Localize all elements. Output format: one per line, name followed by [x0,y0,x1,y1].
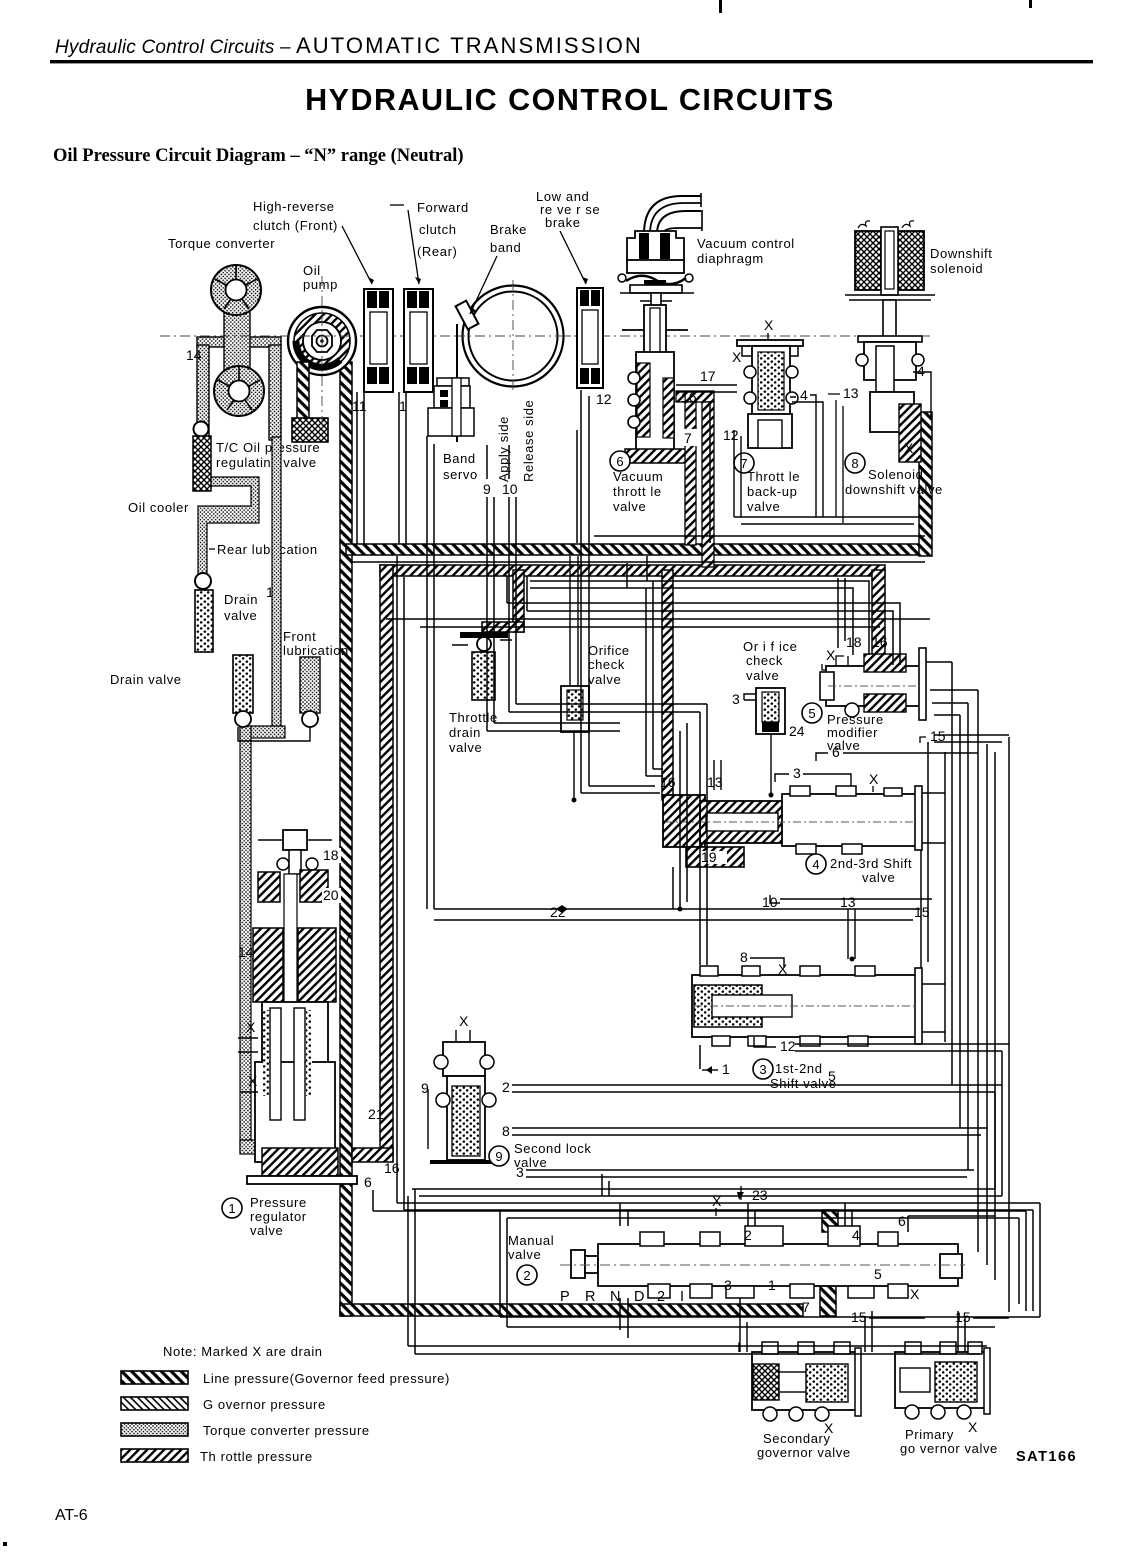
svg-text:Vacuum: Vacuum [613,469,663,484]
label: Torque converter [168,236,275,251]
svg-text:check: check [588,657,625,672]
wire: lines from shift valves to right bundle [780,742,1009,1051]
svg-text:valve: valve [449,740,482,755]
svg-text:X: X [732,349,742,365]
svg-text:P: P [560,1289,570,1305]
svg-text:valve: valve [224,608,257,623]
svg-text:band: band [490,240,521,255]
label: circled 5 Pressure modifier valve [802,703,884,753]
svg-text:Pressure: Pressure [250,1195,307,1210]
svg-text:12: 12 [723,427,739,443]
svg-text:2: 2 [502,1079,510,1095]
label: 4 and 12 (TBU ports) [723,387,920,524]
svg-text:X: X [764,317,774,333]
svg-text:drain: drain [449,725,481,740]
label: circled 9 Second lock valve [489,1141,591,1170]
svg-text:AT-6: AT-6 [55,1507,88,1524]
label: 23 with check ball [737,1186,768,1203]
label: 10 and 13 and 15 and 22 port lines between shift valves [434,894,930,959]
label: 15 right of pressure modifier [920,728,946,744]
wire: bottom bundle below main loop [373,1174,1040,1354]
svg-text:8: 8 [502,1123,510,1139]
svg-text:Torque converter pressure: Torque converter pressure [203,1423,370,1438]
svg-text:5: 5 [874,1266,882,1282]
svg-text:X: X [248,1073,258,1089]
svg-text:8: 8 [851,456,858,471]
wire: horizontal bundle under pipes [386,556,930,776]
high-reverse clutch (front) [364,289,393,392]
second lock valve [430,1013,498,1164]
svg-text:2: 2 [744,1227,752,1243]
svg-text:2: 2 [657,1289,665,1305]
label: 18 16 over pressure modifier riser [846,634,888,650]
svg-text:Release side: Release side [521,400,536,482]
svg-text:Downshift: Downshift [930,246,992,261]
label: 12 (low-reverse port) [596,391,612,407]
wire: VTV enclosure box [577,401,925,543]
svg-text:Secondary: Secondary [763,1431,831,1446]
label: circled 6 Vacuum throttle valve [610,451,663,514]
svg-text:X: X [459,1013,469,1029]
svg-text:2nd-3rd Shift: 2nd-3rd Shift [830,856,912,871]
svg-text:solenoid: solenoid [930,261,983,276]
svg-text:Oil cooler: Oil cooler [128,500,189,515]
label: 16 (throttle pipe) [681,389,697,405]
svg-text:1: 1 [228,1201,235,1216]
svg-text:Front: Front [283,629,316,644]
pipe: throttle-pressure vertical F left of regulator [352,565,393,1162]
label: Oil pump [303,263,338,292]
torque converter [197,265,281,440]
svg-text:valve: valve [250,1223,283,1238]
label: 9 and 10 (servo ports) [483,445,518,497]
pipe: riser to solenoid downshift valve [919,412,932,556]
pipe: line-pressure top horizontal A [346,544,928,555]
svg-text:13: 13 [843,385,859,401]
legend note [163,1344,323,1359]
svg-text:12: 12 [596,391,612,407]
svg-text:Throttle: Throttle [449,710,498,725]
wire: right side vertical bundle [350,562,1009,1312]
wire: junction dots [572,793,855,962]
svg-text:Rear lubrication: Rear lubrication [217,542,318,557]
pipe: oil pump left leg [297,362,309,420]
svg-text:Solenoid: Solenoid [868,467,923,482]
orifice check valve (right) [732,639,805,795]
svg-text:10: 10 [502,481,518,497]
svg-text:Second lock: Second lock [514,1141,591,1156]
label: 17 line VTV to TBU [676,368,737,392]
wire: inner loop left verticals [397,556,1040,1210]
label: Apply side (rotated) [496,416,511,482]
throttle drain valve [449,632,512,755]
wire: low-reverse brake lines to manual valve [581,390,660,793]
label: 14 (torque converter return) [186,347,202,363]
pipe: riser to 2nd-3rd shift valve [662,570,673,800]
label: Low and reverse brake with leader [536,189,600,284]
figure code SAT166 [1016,1449,1077,1465]
svg-text:20: 20 [323,887,339,903]
pressure regulator valve [238,830,400,1190]
svg-text:Oil: Oil [303,263,321,278]
label: Downshift solenoid [930,246,992,276]
label: 6 port line [816,744,978,761]
svg-text:valve: valve [746,668,779,683]
svg-text:downshift valve: downshift valve [845,482,943,497]
centerline through converter and clutches [160,276,930,430]
wire: manual valve to governors [740,1203,1040,1352]
brake band [455,280,575,392]
svg-text:clutch (Front): clutch (Front) [253,218,338,233]
wire: lower distribution bundle [373,1051,1026,1311]
label: P R N D 2 1 [560,1289,684,1305]
forward clutch (rear) [404,289,433,392]
front lubrication pipe [283,629,349,727]
secondary governor valve [737,1309,1009,1460]
svg-text:7: 7 [802,1299,810,1315]
label: 11 and 1 (clutch ports) [352,398,407,414]
svg-text:18: 18 [846,634,862,650]
svg-text:19: 19 [701,849,717,865]
svg-text:servo: servo [443,467,478,482]
page number AT-6 [55,1507,88,1524]
svg-text:7: 7 [344,929,352,945]
throttle back-up valve [732,317,803,448]
svg-text:5: 5 [808,706,815,721]
label: X drain above manual valve [712,1193,722,1216]
legend torque converter pressure swatch [121,1423,370,1438]
label: circled 8 Solenoid downshift valve [845,453,943,497]
svg-text:3: 3 [793,765,801,781]
pipe: drop to throttle drain valve [482,570,524,632]
svg-text:diaphragm: diaphragm [697,251,764,266]
label: circled 3 1st-2nd Shift valve [753,1059,837,1091]
svg-text:valve: valve [862,870,895,885]
orifice check valve (left) [561,556,630,800]
svg-text:R: R [585,1289,595,1305]
svg-text:governor valve: governor valve [757,1445,851,1460]
svg-text:clutch: clutch [419,222,457,237]
label: High-reverse clutch (Front) with leader [253,199,374,284]
svg-text:4: 4 [800,387,808,403]
label: circled 7 Throttle back-up valve [734,453,800,514]
svg-text:16: 16 [681,389,697,405]
svg-text:2: 2 [523,1268,530,1283]
svg-text:6: 6 [832,744,840,760]
vacuum control diaphragm [618,193,702,309]
1st-2nd shift valve [692,949,922,1046]
svg-text:6: 6 [364,1174,372,1190]
legend governor pressure swatch [121,1397,326,1412]
label: circled 1 Pressure regulator valve [222,1195,307,1238]
pipe: throttle-pressure horizontal B [380,565,885,576]
wire: servo apply/release lines 9 and 10 [487,497,707,1069]
svg-text:Hydraulic Control Circuits –: Hydraulic Control Circuits – [55,37,291,58]
svg-text:Forward: Forward [417,200,469,215]
svg-text:thrott le: thrott le [613,484,662,499]
svg-text:SAT166: SAT166 [1016,1449,1077,1465]
svg-text:valve: valve [747,499,780,514]
oil pump sump (crosshatched) [292,418,328,442]
pressure modifier valve [820,647,926,720]
svg-text:3: 3 [724,1277,732,1293]
svg-text:14: 14 [238,944,254,960]
label: Brake band with leader [470,222,527,314]
legend line pressure swatch [121,1371,450,1386]
page header rule and titles [50,33,1093,166]
svg-text:9: 9 [495,1149,502,1164]
label: Vacuum control diaphragm [697,236,795,266]
svg-text:1: 1 [722,1061,730,1077]
svg-text:21: 21 [368,1106,384,1122]
label: 14 (front lube line) [263,583,284,600]
svg-text:valve: valve [588,672,621,687]
svg-text:(Rear): (Rear) [417,244,457,259]
svg-text:1: 1 [768,1277,776,1293]
label: 9 2 8 3 ports of second lock valve [421,1079,1002,1180]
label: Forward clutch (Rear) with leader [390,200,469,284]
svg-text:regulator: regulator [250,1209,307,1224]
svg-text:Manual: Manual [508,1233,554,1248]
label: 3 port line [775,765,851,786]
downshift solenoid [845,221,935,342]
svg-text:Th rottle pressure: Th rottle pressure [200,1449,313,1464]
svg-text:Thrott le: Thrott le [747,469,800,484]
svg-text:1st-2nd: 1st-2nd [775,1061,823,1076]
label: 12 1 5 ports of 1st-2nd valve [702,1037,836,1084]
rear lubrication pipe [209,542,318,557]
2nd-3rd shift valve [663,786,922,867]
svg-text:Or i f ice: Or i f ice [743,639,797,654]
svg-text:High-reverse: High-reverse [253,199,335,214]
drain valve (front) [110,655,310,741]
svg-text:6: 6 [616,454,623,469]
svg-text:Torque converter: Torque converter [168,236,275,251]
svg-text:12: 12 [780,1038,796,1054]
svg-text:17: 17 [700,368,716,384]
pipe: line-pressure bottom horizontal [340,1304,803,1316]
svg-text:8: 8 [740,949,748,965]
T/C oil pressure regulating valve [193,422,320,492]
svg-text:3: 3 [759,1062,766,1077]
svg-text:go vernor valve: go vernor valve [900,1441,998,1456]
svg-text:18: 18 [323,847,339,863]
label: 4 and 13 (solenoid valve ports) [828,363,931,523]
pipe: riser to pressure modifier valve [872,570,885,660]
label: 16 13 above 2nd-3rd valve [660,760,723,790]
svg-text:Shift valve: Shift valve [770,1076,837,1091]
svg-text:I: I [680,1289,684,1305]
svg-text:Primary: Primary [905,1427,954,1442]
svg-text:Brake: Brake [490,222,527,237]
svg-text:pump: pump [303,277,338,292]
crop tick top center [719,0,722,13]
svg-text:9: 9 [483,481,491,497]
svg-text:Orifice: Orifice [588,643,630,658]
svg-text:AUTOMATIC TRANSMISSION: AUTOMATIC TRANSMISSION [296,33,643,58]
band servo [428,324,478,482]
crop tick top right [1029,0,1032,8]
svg-text:N: N [610,1289,620,1305]
svg-text:valve: valve [508,1247,541,1262]
oil cooler pipe [128,477,259,574]
drain valve (rear) [195,573,258,652]
svg-text:regulating valve: regulating valve [216,455,317,470]
vacuum throttle valve [622,305,689,463]
svg-text:24: 24 [789,723,805,739]
svg-text:valve: valve [613,499,646,514]
svg-text:4: 4 [917,363,925,379]
svg-text:Drain valve: Drain valve [110,672,182,687]
wire: clutch feed lines [357,392,406,544]
svg-text:G overnor pressure: G overnor pressure [203,1397,326,1412]
svg-text:Band: Band [443,451,476,466]
svg-text:brake: brake [545,215,581,230]
label: circled 4 2nd-3rd Shift valve [806,854,912,885]
svg-text:I: I [737,1339,741,1355]
svg-text:Drain: Drain [224,592,258,607]
svg-text:6: 6 [898,1213,906,1229]
svg-text:X: X [869,771,879,787]
oil pump [288,307,356,375]
svg-text:Line pressure(Governor feed pr: Line pressure(Governor feed pressure) [203,1371,450,1386]
pipe: manual valve inlet elbow [820,1210,838,1316]
svg-text:13: 13 [840,894,856,910]
svg-text:14: 14 [186,347,202,363]
svg-text:D: D [634,1289,644,1305]
svg-text:lubrication: lubrication [283,643,349,658]
svg-text:Oil Pressure Circuit Diagram –: Oil Pressure Circuit Diagram – “N” range… [53,146,464,166]
low and reverse brake [577,288,603,388]
pipe: torque converter return vertical [240,437,285,1154]
svg-text:X: X [904,440,914,456]
svg-text:X: X [826,647,836,663]
primary governor valve [895,1342,998,1456]
svg-text:back-up: back-up [747,484,797,499]
svg-text:X: X [968,1419,978,1435]
svg-text:Note: Marked X are drain: Note: Marked X are drain [163,1344,323,1359]
label: X over 2nd-3rd shift valve [869,771,879,792]
svg-text:4: 4 [812,857,819,872]
svg-text:5: 5 [828,1068,836,1084]
legend throttle pressure swatch [121,1449,313,1464]
svg-text:HYDRAULIC CONTROL CIRCUITS: HYDRAULIC CONTROL CIRCUITS [305,83,835,117]
pipe: main line-pressure vertical left [340,362,352,1316]
manual valve [508,1213,965,1315]
svg-text:16: 16 [872,634,888,650]
svg-text:3: 3 [516,1164,524,1180]
pipe: throttle pressure out of VTV [676,391,714,567]
solenoid downshift valve [856,336,924,462]
wire: band servo risers [427,436,434,909]
svg-text:7: 7 [684,430,692,446]
svg-text:check: check [746,653,783,668]
svg-text:3: 3 [732,691,740,707]
stray mark bottom left [3,1542,7,1546]
svg-text:X: X [910,1286,920,1302]
label: Release side (rotated) [521,400,536,482]
svg-text:Vacuum control: Vacuum control [697,236,795,251]
svg-text:X: X [246,1019,256,1035]
svg-text:4: 4 [852,1227,860,1243]
